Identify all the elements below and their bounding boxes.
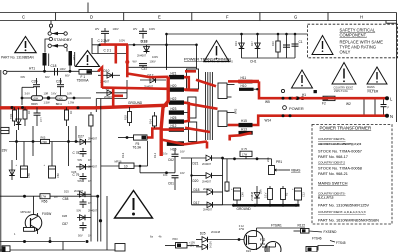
warning triangle right 1 — [292, 70, 313, 88]
svg-text:270R: 270R — [41, 142, 47, 144]
svg-text:STOCK No. TXMA-00068: STOCK No. TXMA-00068 — [318, 167, 362, 171]
wire E row main — [92, 44, 197, 46]
warning triangle right 2 — [332, 63, 356, 85]
wire HT1 horizontal — [7, 70, 79, 72]
red diagonal across core A — [196, 80, 216, 86]
wire resistor row — [22, 97, 31, 99]
svg-text:COUNTRY IDENTS-: COUNTRY IDENTS- — [318, 137, 346, 141]
pad H10B — [167, 141, 184, 146]
svg-text:VBIAS: VBIAS — [291, 169, 300, 173]
svg-text:17W: 17W — [41, 196, 47, 199]
red hook H22-H25 — [184, 103, 189, 122]
svg-text:2N4007: 2N4007 — [88, 208, 98, 212]
capacitor C56 electrolytic — [16, 142, 32, 179]
svg-text:3.6V: 3.6V — [25, 91, 31, 95]
svg-text:100V: 100V — [150, 60, 156, 64]
resistor R14 vertical — [149, 112, 157, 128]
svg-text:10R: 10R — [44, 91, 49, 95]
zener diode left — [16, 108, 22, 130]
diode D17b — [192, 201, 223, 212]
wire row y141.5 — [9, 141, 78, 143]
diode D10 — [98, 69, 120, 84]
svg-text:COMPONENT.: COMPONENT. — [340, 33, 367, 38]
junction dot — [73, 97, 76, 100]
resistor BR05 — [31, 96, 50, 106]
svg-text:FXSEND: FXSEND — [324, 230, 338, 234]
resistor R10 — [271, 34, 280, 58]
svg-text:COUNTRY IDENT: COUNTRY IDENT — [334, 86, 354, 89]
wire bottom-left y196 — [0, 195, 98, 197]
svg-text:H21: H21 — [171, 71, 177, 75]
svg-text:+15V: +15V — [188, 244, 194, 248]
svg-text:R56: R56 — [42, 200, 48, 204]
transformer secondary winding 2 — [218, 111, 227, 127]
svg-text:60V: 60V — [21, 75, 26, 79]
svg-text:H1: H1 — [302, 93, 306, 97]
red wire H14 tail — [230, 133, 252, 141]
svg-text:R122: R122 — [298, 223, 306, 227]
svg-text:C25: C25 — [56, 80, 62, 84]
svg-text:2N4007: 2N4007 — [202, 180, 212, 184]
svg-text:H20: H20 — [171, 84, 177, 88]
svg-text:C: C — [22, 15, 25, 20]
capacitor top row 2 — [133, 27, 155, 39]
svg-text:C1: C1 — [299, 40, 303, 44]
standby switch pole 2 — [48, 44, 51, 47]
svg-text:C 3 1: C 3 1 — [104, 49, 112, 53]
svg-text:100V: 100V — [113, 27, 119, 31]
warning triangle above F1 — [76, 51, 100, 67]
svg-text:POWER: POWER — [289, 106, 304, 111]
svg-text:W14: W14 — [265, 119, 272, 123]
wire C61 feed — [139, 165, 142, 168]
winding core lines — [48, 54, 50, 67]
svg-text:D13: D13 — [234, 41, 238, 46]
resistor 5.1V — [264, 186, 273, 204]
terminal circle left edge — [3, 70, 7, 74]
svg-text:PART No. 968-21: PART No. 968-21 — [318, 172, 348, 176]
junction dot — [47, 96, 51, 100]
diode D27 — [76, 112, 98, 189]
svg-text:PART No. 968-17: PART No. 968-17 — [318, 155, 348, 159]
svg-text:R18: R18 — [124, 115, 128, 120]
wire standby to transformer — [45, 39, 49, 53]
svg-text:50V: 50V — [77, 208, 82, 212]
svg-text:W5: W5 — [265, 100, 270, 104]
capacitor C49 electrolytic — [231, 188, 245, 204]
svg-text:H25: H25 — [171, 116, 177, 120]
junction dot on ground — [11, 106, 14, 109]
svg-text:BR05: BR05 — [31, 102, 38, 106]
svg-text:D18: D18 — [141, 40, 148, 44]
svg-text:FTS45: FTS45 — [336, 241, 346, 245]
red stub D9 — [113, 95, 123, 98]
border band bottom line — [0, 20, 397, 22]
red diagonal across core C — [185, 128, 210, 132]
svg-text:FTSW1: FTSW1 — [271, 223, 282, 227]
red winding entry top — [185, 70, 196, 73]
capacitor C80 — [73, 173, 92, 183]
border tick 1 — [55, 13, 57, 21]
svg-text:23A: 23A — [259, 189, 263, 194]
svg-text:H22: H22 — [171, 97, 177, 101]
svg-text:POWER TRANSFORMER: POWER TRANSFORMER — [184, 56, 231, 61]
diode D25 — [196, 230, 244, 248]
junction dots on ground bar — [232, 204, 235, 207]
svg-text:50V: 50V — [78, 234, 83, 238]
wire right vertical x91 — [90, 189, 92, 242]
svg-text:FIL1: FIL1 — [153, 152, 157, 158]
border tick 5 — [327, 13, 329, 21]
transformer winding bar left — [43, 53, 47, 66]
junction dot — [165, 44, 168, 47]
black square mark — [314, 90, 317, 93]
fuse F2 — [322, 96, 335, 105]
svg-text:100K: 100K — [57, 97, 63, 101]
svg-text:ONLY: ONLY — [340, 50, 351, 55]
svg-text:10R: 10R — [67, 91, 72, 95]
mains filter box — [364, 98, 375, 117]
svg-text:D25: D25 — [64, 190, 69, 194]
svg-text:D25: D25 — [200, 232, 206, 236]
capacitor top row 1 — [95, 27, 119, 45]
wire C35 branch — [22, 86, 34, 88]
svg-text:R 75: R 75 — [242, 147, 248, 151]
red stub winding left 2 — [228, 124, 239, 127]
capacitor C57 — [62, 222, 87, 231]
wire winding leads — [44, 66, 46, 72]
left frame line — [0, 70, 2, 252]
svg-text:17W: 17W — [239, 227, 245, 231]
resistor R18 vertical — [124, 107, 132, 126]
svg-text:GROUND: GROUND — [128, 101, 143, 105]
svg-text:100V: 100V — [60, 67, 66, 71]
svg-text:D17: D17 — [250, 41, 254, 46]
wire verticals mid-left — [16, 142, 18, 161]
svg-text:E: E — [158, 15, 161, 20]
svg-text:PART No. 1310NB5NKR125V: PART No. 1310NB5NKR125V — [318, 204, 370, 208]
svg-text:-15V: -15V — [1, 149, 9, 153]
diode left low — [9, 160, 15, 180]
red wire vertical x127 — [126, 45, 129, 78]
svg-text:2N4007: 2N4007 — [88, 165, 98, 169]
svg-text:3.6V: 3.6V — [51, 91, 57, 95]
svg-text:F12: F12 — [260, 238, 266, 242]
svg-text:STOCK No. TXMA-00067: STOCK No. TXMA-00067 — [318, 149, 362, 153]
svg-text:1R: 1R — [69, 111, 73, 114]
svg-text:MAINS SWITCH: MAINS SWITCH — [318, 181, 348, 186]
svg-text:FXSW: FXSW — [42, 212, 51, 216]
connector box bottom right — [306, 247, 317, 252]
red stub winding left — [228, 80, 238, 83]
diode D9 — [96, 86, 127, 99]
svg-text:C18: C18 — [51, 64, 57, 68]
dashed info box POWER TRANSFORMER — [312, 125, 392, 225]
terminal dot N — [385, 114, 389, 118]
capacitor C62 — [163, 148, 185, 173]
diode D26 — [64, 189, 91, 197]
junction dots on N line — [282, 114, 285, 117]
wire to R75 — [223, 158, 272, 160]
wire vertical x107 — [106, 196, 108, 250]
wire winding taps — [184, 76, 189, 78]
svg-text:COUNTRY IDENT-2: COUNTRY IDENT-2 — [318, 161, 345, 165]
resistor R65 — [41, 136, 50, 144]
resistor R75 — [240, 147, 252, 159]
wire D-row verticals — [96, 98, 127, 100]
wire vertical x97.7 — [97, 196, 99, 241]
svg-text:MR16: MR16 — [115, 160, 122, 164]
svg-text:T6.3A: T6.3A — [133, 146, 142, 150]
svg-text:C77: C77 — [39, 117, 43, 122]
svg-text:COUNTRY IDENT- A,D,E,A,K,S,V,X: COUNTRY IDENT- A,D,E,A,K,S,V,X — [318, 210, 366, 214]
svg-text:C35: C35 — [32, 80, 38, 84]
fuse F1 — [77, 70, 92, 83]
wire to ground bar — [192, 204, 234, 206]
resistor R2 — [281, 186, 289, 204]
capacitor C58 — [63, 197, 92, 208]
connector circles on L line — [291, 97, 294, 100]
svg-text:230V-T1.6A: 230V-T1.6A — [334, 89, 348, 93]
wire F row main (top middle) — [167, 33, 308, 35]
red hook H21-H20 — [184, 77, 189, 89]
svg-text:N: N — [390, 114, 393, 119]
svg-text:D27: D27 — [78, 134, 84, 138]
junction dot — [165, 33, 168, 36]
red wire H10B row — [161, 140, 207, 145]
svg-text:17W: 17W — [242, 154, 248, 157]
red via dot — [125, 60, 129, 64]
svg-text:2N4007: 2N4007 — [74, 189, 84, 193]
red wire D12 row — [102, 88, 168, 89]
svg-text:1N: 1N — [88, 179, 91, 183]
svg-text:0-15V: 0-15V — [209, 241, 213, 248]
power indicator circle — [283, 106, 287, 110]
wire to transformer top — [166, 34, 168, 70]
svg-text:B,C,L,P,T,S: B,C,L,P,T,S — [318, 196, 333, 200]
transformer T2 core — [206, 72, 213, 140]
resistor R56 — [40, 194, 57, 204]
red trunk vertical at pads — [161, 77, 168, 157]
red diagonal across core B — [189, 104, 218, 109]
capacitor C79 — [73, 148, 92, 162]
connector PR3 — [165, 237, 199, 248]
svg-text:PART No. 1310885AN: PART No. 1310885AN — [1, 56, 34, 60]
svg-text:D21: D21 — [193, 162, 199, 166]
junction dot — [99, 219, 102, 222]
svg-text:H23: H23 — [171, 107, 177, 111]
svg-text:W62: W62 — [234, 108, 238, 114]
svg-text:C62: C62 — [168, 158, 174, 162]
red wire H15 to N — [253, 116, 387, 125]
svg-text:FIL3: FIL3 — [121, 152, 125, 158]
capacitor C18 — [51, 64, 66, 76]
svg-text:50V: 50V — [78, 158, 83, 162]
svg-text:C 79: C 79 — [73, 173, 80, 177]
svg-text:60V: 60V — [65, 74, 70, 78]
warning triangle top-left — [15, 37, 36, 53]
svg-text:D17: D17 — [194, 201, 200, 205]
svg-text:100V: 100V — [119, 39, 125, 43]
junction dot — [21, 97, 24, 100]
svg-text:GROUND: GROUND — [237, 207, 252, 211]
svg-text:H15: H15 — [241, 119, 247, 123]
border band top line — [0, 12, 397, 14]
svg-text:H: H — [360, 15, 363, 20]
svg-text:WV: WV — [133, 27, 137, 31]
svg-text:F2: F2 — [322, 102, 326, 106]
svg-text:W2: W2 — [346, 102, 351, 106]
svg-text:PR1: PR1 — [276, 160, 282, 164]
svg-text:H11: H11 — [241, 76, 247, 80]
resistor BR11 — [56, 96, 75, 106]
svg-text:PART No. 1610NMRNB5NKR5SBN: PART No. 1610NMRNB5NKR5SBN — [318, 219, 379, 223]
svg-text:ABCDEFGHIJKLMNOPQ,U,V,X: ABCDEFGHIJKLMNOPQ,U,V,X — [318, 142, 361, 146]
box bottom mid — [115, 244, 125, 252]
svg-text:10u: 10u — [163, 152, 168, 156]
svg-text:D20: D20 — [193, 179, 199, 183]
right frame line — [396, 13, 398, 123]
red wire ground main — [0, 105, 168, 108]
svg-text:F: F — [226, 15, 229, 20]
svg-text:100K: 100K — [32, 97, 38, 101]
svg-text:BR11: BR11 — [56, 102, 63, 106]
border tick 2 — [123, 13, 125, 21]
svg-text:R10: R10 — [271, 41, 275, 46]
svg-text:D10: D10 — [104, 69, 110, 73]
svg-text:100V: 100V — [149, 27, 155, 31]
svg-text:C60: C60 — [56, 173, 60, 178]
svg-text:G: G — [294, 15, 297, 20]
zener 23A — [250, 186, 263, 204]
svg-text:100V: 100V — [152, 55, 158, 59]
svg-text:WV: WV — [95, 27, 99, 31]
wire diode bus verticals — [191, 158, 193, 205]
transformer primary winding 3 — [189, 122, 197, 142]
red wire vertical x115 — [115, 45, 118, 64]
transistor T1 — [21, 196, 52, 234]
terminal dot L — [385, 96, 389, 100]
red winding entry H20 — [185, 89, 199, 92]
junction dot — [69, 70, 72, 73]
red wire vertical x102 — [98, 68, 102, 89]
warning triangle right 3 — [367, 67, 387, 84]
red wire H11 bar — [238, 80, 259, 83]
red stub H12 — [161, 128, 184, 131]
junction dot — [15, 140, 18, 143]
border tick 4 — [259, 13, 261, 21]
resistor 1R left — [23, 107, 31, 126]
svg-text:R14: R14 — [149, 119, 153, 124]
wire y172.8 — [140, 172, 175, 174]
safety text — [340, 28, 384, 55]
ground bus bar — [233, 204, 300, 207]
top tick mark — [87, 3, 89, 13]
svg-text:POWER TRANSFORMER: POWER TRANSFORMER — [320, 125, 372, 130]
resistor 1R right — [65, 107, 74, 126]
diode D20 — [192, 173, 223, 184]
red hook end — [206, 142, 209, 149]
transformer winding bar right — [69, 51, 73, 66]
capacitor C35 — [32, 75, 50, 96]
svg-text:2N4007: 2N4007 — [203, 187, 213, 191]
warning triangle bottom middle — [115, 191, 153, 219]
red wire to H21 — [127, 74, 168, 78]
svg-text:5.1V: 5.1V — [264, 192, 268, 198]
trimmer PR1 — [266, 157, 300, 174]
svg-text:C 2.2MF: C 2.2MF — [98, 39, 110, 43]
wire bottom y241.5 — [0, 241, 85, 243]
svg-text:HT1: HT1 — [72, 55, 76, 60]
mosfet F13 — [246, 242, 281, 252]
diode D27c — [196, 244, 208, 250]
capacitor C12 electrolytic — [292, 188, 306, 204]
junction dot — [43, 70, 46, 73]
standby switch terminal circle — [49, 24, 52, 27]
svg-text:C56: C56 — [27, 173, 31, 178]
diode D21 — [181, 155, 223, 166]
junction dots on L line — [282, 97, 285, 100]
svg-text:2N4007: 2N4007 — [203, 208, 213, 212]
red wire L line — [259, 81, 386, 98]
wire row y166 — [101, 165, 119, 167]
resistor 4R7 vertical — [225, 159, 229, 192]
svg-text:17W: 17W — [260, 242, 266, 246]
wire bottom y250 — [0, 249, 120, 251]
svg-text:T500mA: T500mA — [77, 78, 90, 82]
diode D18 symbol — [137, 45, 158, 59]
svg-text:1R: 1R — [27, 111, 31, 114]
connector stub verticals — [16, 130, 18, 142]
svg-text:H12: H12 — [171, 124, 177, 128]
mosfet F12 — [239, 224, 266, 250]
svg-text:STANDBY: STANDBY — [54, 37, 73, 42]
svg-text:1.5W: 1.5W — [68, 100, 75, 104]
junction dot stub — [256, 88, 258, 90]
warning triangle middle — [204, 41, 229, 62]
svg-text:16V: 16V — [180, 150, 185, 154]
filter cap component — [381, 98, 390, 116]
red wire vertical x112 — [112, 88, 115, 108]
svg-text:22K: 22K — [266, 157, 270, 162]
resistor R122 — [294, 223, 338, 234]
svg-text:C87: C87 — [62, 222, 68, 226]
diode D28 — [62, 214, 91, 220]
svg-text:60V: 60V — [45, 75, 50, 79]
red wire top branch — [101, 43, 129, 46]
diode D18b — [192, 187, 223, 195]
capacitor C61 — [163, 171, 185, 190]
junction dot — [98, 44, 101, 47]
capacitor C1 — [292, 34, 303, 58]
svg-text:D18: D18 — [194, 188, 200, 192]
svg-text:50V: 50V — [78, 179, 83, 183]
border tick 3 — [191, 13, 193, 21]
diode D17a — [250, 34, 260, 58]
transformer secondary winding 1 — [218, 83, 227, 99]
svg-text:1.5W: 1.5W — [44, 100, 51, 104]
wire CH1 bottom — [242, 57, 296, 59]
capacitor C25 — [56, 74, 70, 96]
connector box left edge — [1, 127, 9, 133]
svg-text:2N4007: 2N4007 — [88, 137, 98, 141]
svg-text:C58: C58 — [63, 197, 69, 201]
standby switch pole 1 — [48, 32, 51, 35]
svg-text:1N: 1N — [88, 158, 91, 162]
capacitor C47 — [133, 60, 156, 71]
terminal circle small — [281, 89, 284, 92]
fuse F5 — [118, 135, 147, 150]
